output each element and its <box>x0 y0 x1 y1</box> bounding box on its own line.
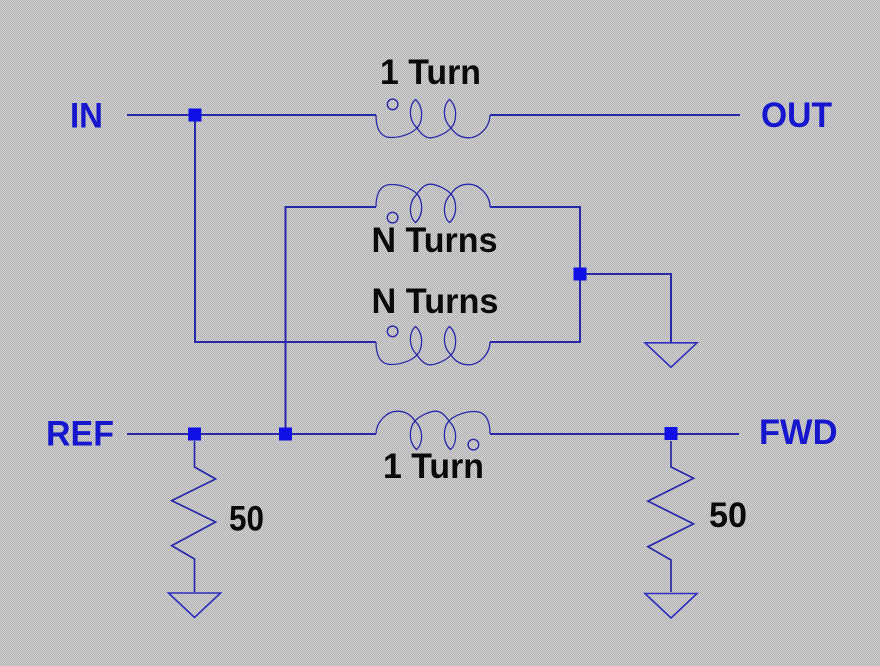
wire IN to transformer T1 primary <box>127 114 376 116</box>
wire from node B to ground <box>580 274 671 342</box>
junction node REF-L2 <box>279 428 292 441</box>
junction node REF-R1 <box>188 428 201 441</box>
svg-text:50: 50 <box>709 495 747 535</box>
resistor R2 50 (right) <box>648 441 694 592</box>
svg-text:1 Turn: 1 Turn <box>383 446 484 486</box>
junction node A (IN tap) <box>189 109 202 122</box>
inductor L1 1 Turn (top) <box>376 99 490 138</box>
inductor L3 N Turns (lower middle) <box>376 326 490 365</box>
svg-text:N Turns: N Turns <box>372 220 498 260</box>
inductor L4 1 Turn (bottom, rotated 180) <box>376 411 490 450</box>
svg-text:50: 50 <box>229 499 264 539</box>
svg-text:FWD: FWD <box>759 412 838 452</box>
ground (below R1) <box>169 593 221 618</box>
resistor R1 50 (left) <box>172 441 216 592</box>
svg-text:N Turns: N Turns <box>372 281 499 321</box>
wire left side from L2 winding down to REF line <box>286 207 377 434</box>
svg-text:REF: REF <box>46 414 114 454</box>
ground (below R2) <box>645 594 697 619</box>
svg-text:OUT: OUT <box>761 95 832 135</box>
svg-text:IN: IN <box>70 96 103 136</box>
junction node FWD-R2 <box>665 427 678 440</box>
svg-text:1 Turn: 1 Turn <box>380 52 481 92</box>
wire node A down and right to L3 sense winding <box>195 115 376 342</box>
wire right side joining L3 and L2 windings <box>490 207 580 342</box>
junction node B (L2-L3 to ground) <box>574 268 587 281</box>
wire transformer T1 primary to OUT <box>490 114 740 116</box>
inductor L2 N Turns (upper middle, flipped) <box>376 184 490 223</box>
wire REF line <box>127 433 376 435</box>
ground (node B arm) <box>645 343 697 368</box>
wire L4 secondary to FWD <box>490 433 739 435</box>
